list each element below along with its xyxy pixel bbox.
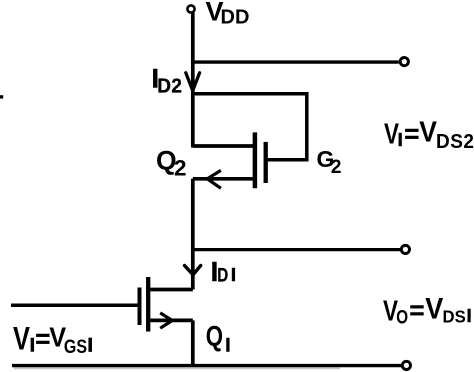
svg-text:Q2: Q2	[156, 146, 187, 181]
svg-text:DS: DS	[443, 306, 466, 327]
svg-text:VDD: VDD	[206, 0, 250, 29]
wire node VDS2 to right terminal	[193, 60, 399, 63]
svg-text:O: O	[396, 306, 408, 328]
transistor Q1 channel bar	[146, 277, 150, 332]
label ID1	[211, 256, 236, 287]
label VO=VDS1	[383, 292, 472, 328]
wire Q1 source down to ground rail	[191, 320, 195, 365]
arrow ID1	[185, 266, 201, 275]
svg-text:DS2: DS2	[436, 131, 474, 154]
transistor Q2 drain line	[193, 144, 255, 148]
svg-text:V: V	[13, 322, 30, 358]
transistor Q1 source line	[148, 319, 193, 323]
terminal VDS1	[401, 245, 409, 253]
svg-text:I: I	[88, 335, 93, 357]
terminal VDS2	[400, 58, 408, 66]
svg-text:I: I	[398, 129, 403, 150]
arrow ID2	[186, 73, 200, 91]
transistor Q2 gate bar	[264, 142, 268, 183]
transistor Q1 gate bar	[138, 288, 142, 326]
left edge tick	[0, 95, 3, 98]
transistor Q2 source line	[193, 177, 255, 181]
svg-text:D2: D2	[157, 75, 182, 98]
svg-text:G2: G2	[317, 146, 342, 178]
wire ground rail	[12, 364, 402, 367]
svg-text:I: I	[231, 264, 236, 285]
terminal ground	[402, 361, 410, 369]
svg-text:V: V	[419, 115, 437, 147]
transistor Q1 source arrow	[160, 313, 172, 328]
svg-text:=: =	[35, 323, 50, 353]
wire node VDS1 to right terminal	[193, 248, 401, 251]
transistor Q2 source arrow	[207, 170, 221, 188]
svg-text:V: V	[425, 292, 443, 326]
wire Q1 gate	[11, 303, 138, 307]
wire Q2 source down to Q1 drain	[191, 179, 195, 290]
label ID2	[152, 63, 183, 97]
transistor Q1 drain line	[148, 288, 193, 292]
svg-text:I: I	[467, 306, 472, 326]
svg-text:=: =	[409, 295, 424, 325]
svg-text:GS: GS	[64, 335, 87, 357]
transistor Q2 channel bar	[253, 132, 258, 188]
svg-text:Q: Q	[206, 321, 223, 352]
svg-text:=: =	[404, 118, 419, 148]
terminal VDD	[187, 5, 194, 12]
wire VDD down to Q2 drain	[191, 13, 195, 148]
scan smudge under ground rail	[14, 367, 340, 369]
label VI=VGS1	[13, 322, 93, 358]
svg-text:I: I	[225, 336, 230, 357]
wire gate loop of Q2	[193, 94, 307, 160]
label VI=VDS2	[384, 115, 474, 153]
svg-text:D: D	[217, 264, 228, 286]
